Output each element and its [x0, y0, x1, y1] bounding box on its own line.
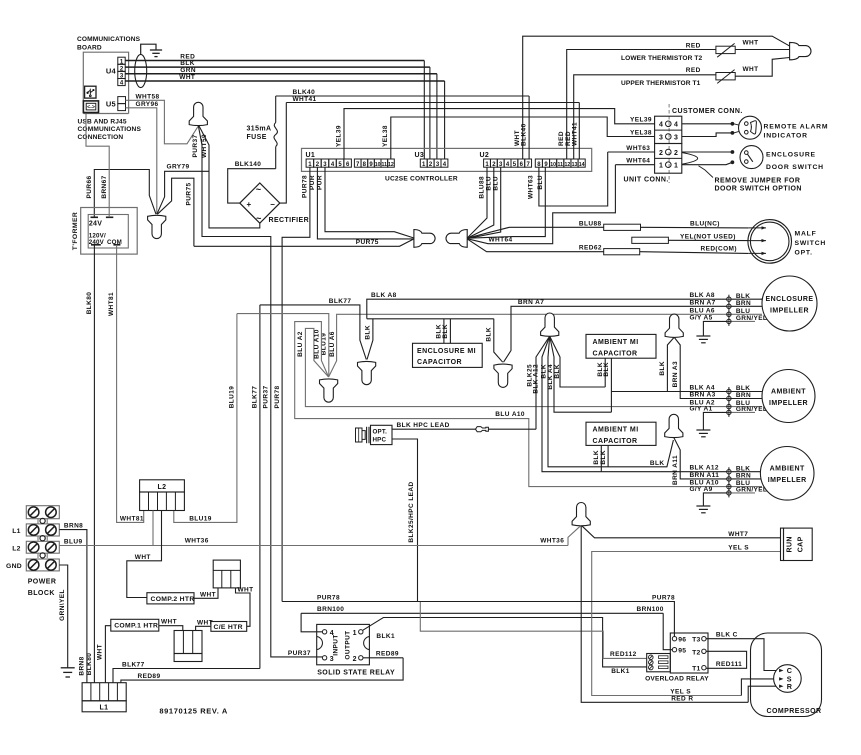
RJ45 icon [83, 101, 98, 113]
svg-text:BRN A7: BRN A7 [518, 299, 544, 306]
svg-text:U2: U2 [480, 152, 490, 159]
svg-text:INDICATOR: INDICATOR [764, 133, 808, 140]
wire BLK40 drop U2-7 [528, 96, 530, 159]
svg-text:WHT81: WHT81 [108, 292, 115, 316]
svg-text:BRN A11: BRN A11 [672, 455, 679, 485]
svg-text:MALF: MALF [795, 230, 817, 237]
svg-text:89170125 REV. A: 89170125 REV. A [159, 707, 228, 716]
svg-text:+: + [247, 200, 252, 209]
heater block upper [213, 560, 240, 588]
wire RED89 from SSR pin2 [363, 657, 403, 659]
svg-text:BLK: BLK [554, 364, 561, 379]
UC2SE controller outline [302, 148, 592, 171]
svg-text:PUR78: PUR78 [274, 386, 281, 409]
enclosure impeller motor [762, 276, 817, 331]
wire RED(COM) to malf switch [640, 252, 749, 254]
wire BLU9 / WHT36 [59, 545, 568, 547]
svg-text:GND: GND [6, 563, 22, 570]
wire BLK A4 row [611, 391, 729, 393]
wire GRY96 [126, 108, 157, 214]
svg-text:AMBIENT MI: AMBIENT MI [593, 339, 639, 346]
svg-text:GRN/YEL: GRN/YEL [736, 315, 767, 322]
wire YEL S [592, 552, 781, 696]
svg-text:G/Y A5: G/Y A5 [690, 315, 713, 322]
compressor motor circle [774, 665, 802, 693]
svg-text:96: 96 [678, 637, 686, 644]
svg-text:BLK: BLK [593, 450, 600, 465]
wire PUR37 to SSR pin3 [271, 655, 323, 657]
svg-text:1: 1 [674, 163, 678, 170]
svg-text:CAPACITOR: CAPACITOR [417, 359, 462, 366]
splice BLU88 [604, 224, 641, 230]
svg-text:GRY79: GRY79 [167, 164, 190, 171]
svg-text:RED89: RED89 [138, 673, 161, 680]
svg-text:DOOR SWITCH: DOOR SWITCH [766, 164, 824, 171]
svg-text:315mA: 315mA [247, 126, 272, 133]
svg-text:POWER: POWER [28, 579, 57, 586]
terminal strip L1 [82, 683, 126, 701]
wire WHT comp1 right [159, 626, 183, 631]
svg-text:BLK A4: BLK A4 [690, 385, 715, 392]
svg-text:BLU88: BLU88 [478, 176, 485, 199]
wire PUR75 horizontal to bullet [194, 239, 414, 246]
wire RED drop to U3-1 [423, 61, 425, 160]
svg-text:PUR78: PUR78 [652, 594, 675, 601]
bullet connector (female) [446, 230, 467, 248]
wire BLU A10 [295, 322, 729, 487]
svg-text:T'FORMER: T'FORMER [72, 212, 79, 250]
svg-text:SWITCH: SWITCH [795, 240, 827, 247]
wire WHT7 [582, 526, 781, 538]
wire BLK40 [276, 95, 529, 97]
svg-text:BLK A8: BLK A8 [371, 292, 397, 299]
customer conn lower block rows 2-2 1-1 [655, 144, 682, 174]
wire BLK25 [536, 336, 550, 429]
malf switch circle [748, 220, 792, 264]
svg-text:BRN A11: BRN A11 [690, 472, 720, 479]
svg-text:CUSTOMER CONN.: CUSTOMER CONN. [672, 108, 743, 115]
cap1 pin BLK right [610, 358, 612, 412]
svg-text:WHT63: WHT63 [626, 145, 650, 152]
door switch wires and jumper [682, 151, 733, 153]
svg-text:RED: RED [686, 43, 701, 50]
splices enclosure impeller [728, 295, 730, 326]
svg-text:BLU A6: BLU A6 [690, 307, 715, 314]
wire BLU U2-9 to bullet [468, 167, 546, 238]
svg-text:AMBIENT: AMBIENT [771, 388, 806, 395]
run capacitor [781, 528, 784, 560]
svg-text:WHT: WHT [97, 644, 104, 660]
svg-text:WHT58: WHT58 [136, 93, 160, 100]
svg-text:WHT: WHT [179, 74, 195, 81]
svg-text:PUR78: PUR78 [302, 175, 309, 198]
svg-text:WHT36: WHT36 [540, 538, 564, 545]
svg-text:1: 1 [659, 163, 663, 170]
wire BLK mid [548, 336, 673, 467]
svg-text:4: 4 [674, 122, 678, 129]
wire BLK A8 [367, 299, 729, 319]
wire PUR66 path to wire nut [94, 170, 156, 218]
svg-text:WHT81: WHT81 [120, 515, 144, 522]
wire YEL39 U1-6 to customer conn [344, 109, 655, 159]
wire BLK HPC LEAD [392, 428, 476, 430]
svg-text:OPT.: OPT. [373, 428, 388, 435]
ferrite bead ellipse [135, 54, 147, 87]
solid state relay box [317, 624, 370, 664]
wire G/Y A9 with ground [703, 493, 729, 506]
wire WHT41 [286, 102, 579, 104]
wire PUR from U1-2 [317, 167, 414, 239]
svg-text:BLOCK: BLOCK [28, 590, 55, 597]
wire WHT heater block to C/E HTR [236, 588, 251, 626]
svg-text:WHT: WHT [135, 554, 151, 561]
svg-text:T3: T3 [692, 637, 700, 644]
svg-text:RED62: RED62 [579, 245, 602, 252]
wire BLK77 into L1 [113, 669, 260, 683]
wire G/Y A5 with ground [703, 321, 729, 336]
svg-text:BLK: BLK [736, 385, 750, 392]
wire BLU88 from U2-1 [468, 167, 487, 237]
wire R terminal [748, 686, 782, 702]
svg-text:L2: L2 [158, 484, 167, 491]
svg-text:WHT59: WHT59 [201, 134, 208, 158]
svg-text:BLU9: BLU9 [64, 539, 83, 546]
svg-text:3: 3 [659, 134, 663, 141]
svg-text:YEL S: YEL S [670, 689, 691, 696]
svg-text:BLK: BLK [659, 361, 666, 376]
svg-text:PUR: PUR [317, 175, 324, 190]
wire BLK140 [228, 169, 276, 203]
svg-text:BLU: BLU [537, 175, 544, 190]
cap2 pin BLK right [607, 445, 609, 466]
svg-text:CAPACITOR: CAPACITOR [593, 438, 638, 445]
wire GRN drop to U3-3 [436, 74, 438, 159]
svg-text:U5: U5 [106, 100, 116, 109]
svg-text:BLK40: BLK40 [293, 89, 316, 96]
wire G/Y A1 with ground [703, 412, 729, 430]
svg-text:10: 10 [550, 162, 556, 168]
wire BLU from U2-3 [468, 167, 501, 238]
svg-text:T1: T1 [692, 666, 700, 673]
wire BLK drop to U3-2 [429, 67, 431, 159]
wire PUR78 from U1-1 [282, 167, 310, 601]
rectifier bridge [240, 183, 280, 223]
svg-text:BRN67: BRN67 [101, 175, 108, 198]
wire BLK77 horizontal [260, 305, 366, 360]
power block [26, 506, 59, 519]
svg-text:3: 3 [330, 656, 334, 663]
svg-text:IMPELLER: IMPELLER [768, 477, 807, 484]
wire nut 6 [665, 414, 683, 437]
wire BLK A4 to cap1 [550, 336, 612, 412]
remove jumper note [699, 166, 714, 178]
svg-text:BLK: BLK [485, 327, 492, 342]
svg-text:GRY96: GRY96 [136, 101, 159, 108]
wire WHT81 transformer to L2 [117, 245, 144, 523]
svg-text:DOOR SWITCH OPTION: DOOR SWITCH OPTION [715, 185, 802, 192]
svg-text:L1: L1 [100, 705, 109, 712]
svg-text:COMMUNICATIONS: COMMUNICATIONS [78, 126, 142, 133]
svg-text:11: 11 [558, 162, 564, 168]
wire GRN U4-3 [125, 73, 437, 75]
svg-text:<->: <-> [87, 105, 95, 111]
wire BLU(NC) to malf switch [641, 226, 749, 229]
connector U1 pins 7-12 [354, 159, 361, 167]
svg-text:2: 2 [659, 150, 663, 157]
impeller lead wires right [732, 298, 763, 300]
wire BLK to cap1 left pin [550, 336, 606, 387]
enclosure door switch [740, 146, 763, 169]
wire nut (lower) [148, 215, 166, 238]
wire BLK cap to wire nut 5 [667, 337, 674, 391]
ground (ambient impeller 2) [696, 429, 710, 431]
wire PUR75 [157, 178, 194, 246]
svg-text:ENCLOSURE: ENCLOSURE [766, 152, 816, 159]
ground (shield) [150, 49, 162, 51]
svg-text:BLK A8: BLK A8 [690, 292, 715, 299]
upper thermistor T1 splice [716, 73, 735, 80]
svg-text:BLK140: BLK140 [235, 161, 262, 168]
transformer T'FORMER [81, 208, 138, 255]
wire RED111 T2-T1 [706, 651, 747, 668]
svg-text:BRN100: BRN100 [317, 606, 344, 613]
wire BRN100 [301, 613, 322, 632]
svg-text:COMP.1 HTR: COMP.1 HTR [114, 623, 158, 630]
svg-text:YEL38: YEL38 [630, 129, 652, 136]
wire WHT T1 to sensor [735, 58, 789, 77]
svg-text:USB AND RJ45: USB AND RJ45 [78, 119, 127, 126]
heater C/E HTR [211, 622, 247, 632]
svg-text:BLK77: BLK77 [329, 298, 352, 305]
wire PUR37 from wire nut [198, 126, 270, 655]
svg-text:BLU19: BLU19 [229, 386, 236, 409]
svg-text:ENCLOSURE: ENCLOSURE [766, 296, 814, 303]
svg-text:RED(COM): RED(COM) [701, 245, 737, 252]
svg-text:U3: U3 [415, 152, 425, 159]
svg-text:IMPELLER: IMPELLER [769, 400, 808, 407]
svg-text:~: ~ [256, 185, 261, 195]
cap1 pin BLK left [604, 358, 606, 387]
svg-text:C/E HTR: C/E HTR [214, 624, 243, 631]
svg-text:BLK: BLK [736, 465, 750, 472]
svg-text:BLK: BLK [736, 293, 750, 300]
svg-text:BOARD: BOARD [77, 45, 102, 52]
svg-text:RED111: RED111 [716, 661, 742, 668]
wire WHT63 to conn row2 [608, 151, 655, 153]
svg-text:BLK: BLK [365, 325, 372, 340]
svg-text:COMPRESSOR: COMPRESSOR [767, 708, 822, 715]
svg-text:PUR78: PUR78 [317, 594, 340, 601]
svg-text:BLK77: BLK77 [122, 661, 145, 668]
svg-text:AMBIENT MI: AMBIENT MI [593, 427, 639, 434]
wire WHT41 drop to rectifier [280, 103, 287, 204]
svg-text:RUN: RUN [787, 536, 794, 552]
svg-text:GRN: GRN [180, 67, 196, 74]
wire BRN100 to overload 95 [663, 613, 672, 649]
svg-text:RED: RED [686, 67, 701, 74]
ground (ambient impeller 3) [696, 505, 710, 507]
svg-text:REMOVE JUMPER FOR: REMOVE JUMPER FOR [715, 178, 801, 185]
svg-text:RED R: RED R [671, 695, 693, 702]
svg-text:REMOTE ALARM: REMOTE ALARM [764, 123, 829, 130]
svg-text:COMP.2 HTR: COMP.2 HTR [151, 596, 195, 603]
svg-text:OPT.: OPT. [795, 249, 813, 256]
svg-text:T2: T2 [692, 649, 700, 656]
svg-text:PUR75: PUR75 [185, 183, 192, 206]
thermistor sensor bulb [790, 42, 811, 59]
svg-text:BLU A6: BLU A6 [329, 331, 336, 357]
svg-text:CONNECTION: CONNECTION [78, 134, 124, 141]
wire WHT58 [126, 100, 199, 144]
impeller3 lead wires right [732, 471, 761, 473]
wire WHT59 from wire nut [199, 126, 260, 228]
svg-text:BLK A12: BLK A12 [690, 465, 719, 472]
svg-text:RECTIFIER: RECTIFIER [269, 217, 310, 224]
svg-text:GRN/YEL: GRN/YEL [736, 487, 767, 494]
svg-text:BLK: BLK [442, 324, 449, 339]
svg-text:WHT7: WHT7 [728, 531, 748, 538]
wire GRY79 [157, 171, 209, 214]
splice RED62 [604, 249, 640, 255]
wire BLU19 vertical [174, 314, 237, 523]
svg-text:BRN: BRN [736, 300, 751, 307]
ambient impeller motor 3 [760, 447, 814, 501]
svg-text:BRN8: BRN8 [64, 523, 83, 530]
svg-text:BRN A3: BRN A3 [672, 361, 679, 387]
svg-text:WHT41: WHT41 [293, 96, 317, 103]
svg-text:BRN A7: BRN A7 [690, 299, 716, 306]
splices ambient impeller 3 [728, 467, 730, 497]
wire BRN67 [86, 114, 109, 218]
wire BLK A12 [542, 336, 729, 472]
svg-text:PUR: PUR [309, 175, 316, 190]
jumper arc [682, 153, 698, 165]
wire WHT L2 pin3 to comp2 htr [127, 511, 162, 598]
wire nut 3 [494, 364, 512, 387]
connector U5 [118, 97, 126, 104]
svg-text:R: R [787, 682, 793, 691]
svg-text:GRN/YEL: GRN/YEL [736, 406, 767, 413]
wire YEL(NOT USED) [668, 239, 748, 241]
svg-text:CAPACITOR: CAPACITOR [593, 350, 638, 357]
wire nut (upper) [189, 102, 207, 125]
overload relay box [670, 633, 708, 673]
svg-text:L2: L2 [12, 545, 21, 552]
svg-text:BRN A3: BRN A3 [690, 392, 716, 399]
communications board U4/U5 outline [83, 52, 128, 113]
svg-text:95: 95 [678, 648, 686, 655]
svg-text:OUTPUT: OUTPUT [345, 630, 352, 659]
enclosure MI capacitor [413, 343, 483, 367]
svg-text:WHT64: WHT64 [489, 237, 513, 244]
svg-text:BLU19: BLU19 [189, 515, 212, 522]
customer conn upper block rows 4-4 3-3 [655, 116, 682, 143]
capacitor pin BLK 2 [449, 319, 451, 344]
svg-text:BLK HPC LEAD: BLK HPC LEAD [397, 422, 450, 429]
wire PUR from U1-3 [325, 167, 414, 238]
svg-text:BLU: BLU [492, 176, 499, 191]
svg-text:LOWER THERMISTOR T2: LOWER THERMISTOR T2 [621, 55, 703, 62]
pressure switch OPT HPC [371, 425, 393, 444]
svg-text:BLK A12: BLK A12 [533, 364, 540, 394]
svg-text:ENCLOSURE MI: ENCLOSURE MI [417, 348, 476, 355]
svg-text:BLK C: BLK C [716, 632, 738, 639]
svg-text:YEL(NOT USED): YEL(NOT USED) [680, 233, 736, 240]
wire nut 7 (line splice) [572, 503, 590, 526]
svg-text:HPC: HPC [373, 436, 387, 443]
wire RED112 path [420, 602, 646, 659]
wire BLU88 bullet to splice [468, 227, 604, 238]
svg-text:WHT: WHT [238, 587, 254, 594]
svg-text:−: − [270, 200, 275, 209]
svg-text:WHT36: WHT36 [185, 538, 209, 545]
inline splice [476, 427, 489, 432]
svg-text:BLK80: BLK80 [86, 292, 93, 315]
svg-text:BLK: BLK [603, 362, 610, 377]
wire WHT comp2 to heater block [194, 588, 218, 598]
svg-text:BRN100: BRN100 [637, 606, 664, 613]
svg-text:UNIT CONN.: UNIT CONN. [624, 176, 669, 183]
svg-text:RED89: RED89 [376, 651, 399, 658]
wire nut 2 [358, 361, 376, 384]
wire HPC lead to BLK25 [489, 428, 537, 430]
svg-text:YEL S: YEL S [728, 545, 749, 552]
svg-text:BLK: BLK [650, 460, 665, 467]
heater COMP.2 HTR [147, 593, 194, 604]
svg-text:BLK25/HPC LEAD: BLK25/HPC LEAD [408, 481, 415, 542]
svg-text:BLU A2: BLU A2 [297, 331, 304, 357]
svg-text:BLU: BLU [736, 308, 750, 315]
svg-text:BLK40: BLK40 [521, 123, 528, 146]
svg-text:G/Y A9: G/Y A9 [690, 486, 713, 493]
cap2 pin BLK left [600, 445, 602, 471]
bullet connector (male) [414, 230, 435, 248]
svg-text:BLU A10: BLU A10 [314, 329, 321, 359]
wire BRN A11 [674, 438, 729, 479]
wire BLK77 vertical [259, 305, 261, 669]
malf switch pins [748, 227, 766, 229]
svg-text:BLU88: BLU88 [579, 220, 602, 227]
svg-text:YEL39: YEL39 [630, 117, 652, 124]
svg-text:BLU A10: BLU A10 [495, 411, 525, 418]
wire WHT comp1 to L1 [105, 626, 110, 683]
shield ground wire [141, 44, 156, 54]
wire RED U2-12 to lower thermistor [567, 50, 716, 160]
svg-text:BRN: BRN [736, 392, 751, 399]
heater block lower [174, 631, 202, 654]
svg-text:AMBIENT: AMBIENT [770, 466, 805, 473]
ambient MI capacitor 1 [586, 334, 656, 358]
svg-text:COMMUNICATIONS: COMMUNICATIONS [77, 36, 141, 43]
remote alarm indicator wires [682, 123, 733, 125]
svg-text:12: 12 [564, 162, 570, 168]
svg-text:BRN: BRN [736, 473, 751, 480]
svg-text:CAP: CAP [798, 536, 805, 552]
svg-text:PUR37: PUR37 [263, 386, 270, 409]
svg-text:WHT41: WHT41 [572, 122, 579, 146]
svg-text:14: 14 [579, 162, 585, 168]
svg-text:3: 3 [674, 134, 678, 141]
svg-text:U1: U1 [306, 152, 316, 159]
splices ambient impeller 2 [728, 387, 730, 417]
terminal strip L2 [140, 480, 185, 492]
compressor outline [751, 633, 822, 717]
svg-text:WHT: WHT [743, 66, 759, 73]
svg-text:BLU(NC): BLU(NC) [690, 221, 720, 228]
svg-text:WHT64: WHT64 [626, 158, 650, 165]
customer conn dashed centerline [668, 104, 670, 183]
wire WHT C/E to heater block lower [196, 626, 211, 630]
